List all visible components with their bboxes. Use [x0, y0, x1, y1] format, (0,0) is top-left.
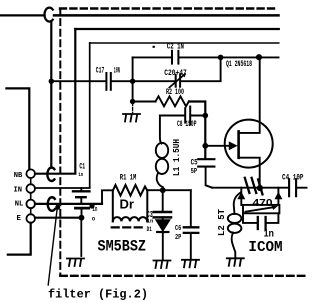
dashed enclosure top edge — [60, 7, 274, 9]
svg-text:ICOM: ICOM — [248, 239, 282, 256]
capacitor C17 — [106, 73, 110, 90]
wire C8 to L1 top — [160, 116, 162, 144]
shield box B left edge — [89, 43, 91, 187]
svg-text:10N: 10N — [114, 66, 120, 75]
wire C6 branch down — [190, 190, 192, 226]
svg-text:C5: C5 — [191, 158, 198, 167]
svg-text:C17: C17 — [96, 66, 105, 75]
wire pin3 to filter input riser — [35, 203, 102, 205]
svg-text:C6: C6 — [175, 225, 182, 233]
wire C6 to ground — [190, 233, 192, 259]
wire output — [297, 187, 306, 189]
svg-text:C20+47: C20+47 — [164, 69, 187, 78]
wire 470 right stem — [277, 188, 279, 205]
dashed enclosure left edge — [59, 9, 61, 275]
junction gate node — [202, 143, 208, 149]
svg-text:1n: 1n — [264, 228, 274, 239]
capacitor C5 gate-source — [198, 159, 214, 187]
dashed enclosure bottom edge — [60, 275, 307, 277]
wire stub to input ground — [132, 103, 134, 113]
inductor L2 bottom lead — [232, 233, 236, 257]
wire R2 to gate riser — [189, 102, 205, 159]
capacitor C3 series — [154, 190, 171, 220]
wire gate lead — [205, 145, 230, 147]
feedthrough hook C at shield wall top — [44, 8, 52, 22]
transistor Q1 drain lead — [240, 57, 260, 132]
wire L1 bottom lead — [157, 173, 163, 190]
svg-text:1n: 1n — [92, 206, 97, 214]
wire trimmer branch — [133, 57, 221, 81]
junction L1 bottom — [160, 187, 166, 193]
ground at input node — [123, 114, 140, 122]
choke Dr core dashes — [112, 226, 145, 228]
capacitor C6 — [184, 227, 199, 233]
wire top from hook to right — [54, 14, 279, 17]
leader line to filter caption — [48, 210, 57, 285]
junction C8 right — [203, 113, 209, 119]
resistor R1 zigzag 1M — [113, 185, 147, 196]
ground below L2 — [227, 258, 244, 266]
svg-text:1n: 1n — [147, 219, 154, 225]
junction drain to supply wire — [256, 54, 262, 60]
svg-text:SM5BSZ: SM5BSZ — [98, 238, 147, 256]
capacitor C1b between pin3 wire and pin4 wire — [76, 208, 89, 217]
wire 470 bottom loop — [243, 213, 278, 223]
junction node A lower — [130, 99, 135, 104]
junction node A — [130, 79, 135, 84]
wire antenna input top-left — [0, 14, 45, 16]
feedthrough hook on pin3 wire — [48, 197, 55, 211]
transistor Q1 channel bar — [237, 131, 240, 157]
svg-text:2P: 2P — [175, 234, 181, 242]
inductor L1 loop 1 — [156, 143, 168, 158]
arrow up right — [274, 192, 282, 200]
inductor L2 top lead — [234, 193, 241, 215]
resistor 470 box — [243, 205, 279, 213]
capacitor C1a between pin2 wire and pin3 wire — [73, 188, 89, 203]
svg-text:NB: NB — [14, 172, 23, 180]
connector pin 2 circle — [26, 184, 35, 193]
svg-text:5P: 5P — [191, 168, 198, 176]
connector pin 3 circle — [26, 200, 35, 209]
ground below C6 — [182, 260, 199, 268]
trimmer capacitor C20 — [169, 73, 186, 87]
wire 470 left stem — [240, 188, 242, 205]
svg-text:IN: IN — [14, 187, 23, 195]
capacitor C4 output — [289, 179, 296, 196]
feedthrough hook on pin1 wire — [47, 168, 54, 181]
svg-text:1n: 1n — [78, 172, 83, 178]
svg-text:C4 10P: C4 10P — [282, 173, 304, 182]
transistor Q1 source lead — [240, 158, 260, 188]
inductor L1 loop 2 — [156, 159, 168, 174]
diode D1 — [156, 220, 170, 231]
svg-text:Dr: Dr — [120, 196, 135, 211]
wire C8 branch — [160, 115, 205, 117]
wire Dr to L1 junction — [147, 189, 191, 191]
inductor L2 loop 2 — [228, 224, 242, 233]
svg-text:R2 100: R2 100 — [166, 88, 184, 97]
svg-text:470: 470 — [253, 197, 273, 209]
svg-text:C2 1N: C2 1N — [167, 43, 184, 52]
ground below pin4 junction — [67, 259, 84, 267]
wire R2 branch left — [133, 101, 156, 103]
wire tap to C17 — [51, 80, 105, 82]
svg-text:E: E — [17, 215, 22, 223]
svg-text:NL: NL — [15, 200, 23, 208]
connector pin 4 circle — [26, 214, 35, 223]
svg-text:o: o — [92, 216, 96, 223]
shield box B top edge — [90, 42, 279, 44]
wire pin4 down and left to edge — [8, 223, 31, 255]
svg-text:Q1 2N5618: Q1 2N5618 — [226, 60, 252, 69]
cut marks over source rail — [245, 178, 263, 195]
capacitor C8 — [185, 107, 190, 125]
shield box A top edge — [75, 28, 278, 30]
junction source node — [257, 185, 263, 191]
wire stub left edge to connector column — [6, 88, 29, 169]
wire diode to ground — [162, 232, 164, 259]
resistor R1 wire from riser — [102, 190, 113, 204]
junction pin4 bypass — [79, 215, 85, 221]
capacitor C2 — [172, 51, 178, 64]
choke Dr scallops — [113, 217, 147, 221]
wire vertical antenna line down — [50, 21, 52, 167]
junction on pin3 wire near riser — [89, 203, 94, 208]
svg-text:L1 1.5UH: L1 1.5UH — [171, 139, 182, 176]
svg-text:C1: C1 — [79, 161, 85, 171]
svg-text:filter (Fig.2): filter (Fig.2) — [48, 288, 148, 302]
junction trimmer top — [218, 55, 224, 61]
capacitor 1n — [258, 217, 266, 229]
wire C17 to node A — [112, 80, 133, 82]
shield box A left edge — [74, 29, 76, 173]
wire between pins — [30, 178, 32, 214]
wire pin1 to shield A — [35, 173, 75, 175]
arrow through resistor — [246, 207, 274, 212]
wire C2 branch — [133, 56, 279, 58]
wire junction to ground — [80, 218, 82, 256]
choke Dr right bracket — [146, 190, 148, 221]
junction antenna line tap — [49, 79, 54, 84]
choke Dr left bracket — [112, 190, 114, 221]
transistor Q1 gate arrow — [229, 141, 238, 150]
svg-text:R1 1M: R1 1M — [120, 173, 137, 182]
connector pin 1 circle — [26, 169, 35, 178]
resistor R2 zigzag — [156, 96, 190, 106]
wire source rail — [212, 187, 288, 189]
svg-text:D1: D1 — [147, 226, 152, 233]
speck near C2 label — [153, 46, 155, 48]
wire pin2 to shield B — [35, 187, 90, 189]
ground below diode — [154, 261, 171, 269]
transistor Q1 circle — [225, 120, 273, 168]
svg-text:C8 150P: C8 150P — [177, 120, 197, 129]
inductor L2 loop 1 — [228, 214, 242, 223]
junction on pin3 wire at hook — [55, 205, 60, 210]
svg-text:L2 5T: L2 5T — [216, 209, 227, 236]
wire pin4 to bypass junction — [35, 217, 82, 219]
wire node A riser — [132, 57, 134, 103]
arrow up left — [237, 192, 245, 200]
